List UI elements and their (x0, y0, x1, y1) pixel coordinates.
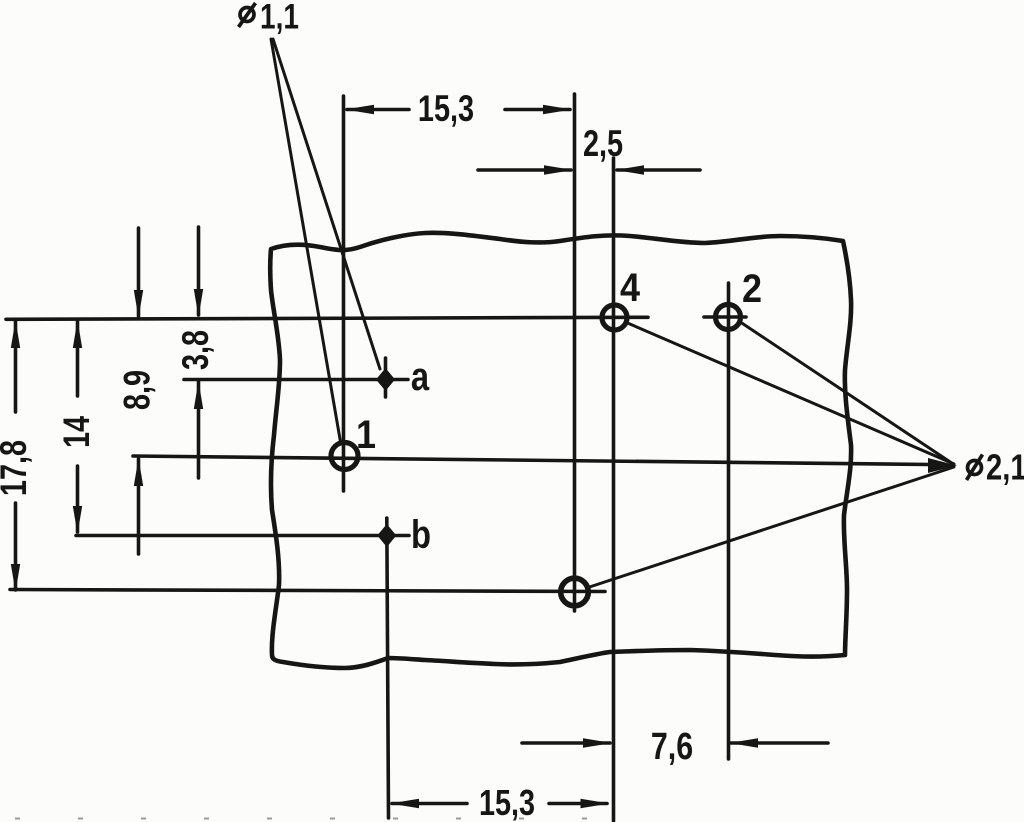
label 4 (620, 266, 640, 310)
arrowhead 2,5 pointing right (544, 165, 573, 174)
wire vertical extension line V3 through hole 4 (612, 158, 616, 821)
dim text 7,6 (651, 726, 693, 768)
dim line 8,9 lower arrow tail (137, 459, 141, 554)
label 2 (742, 267, 762, 311)
arrowhead ø2,1 pointing right (928, 458, 957, 473)
hole 1 (331, 443, 358, 470)
dim line 8,9 upper arrow tail (137, 228, 141, 316)
svg-text:b: b (411, 512, 431, 557)
dim line 14 lower segment (76, 466, 80, 532)
label ø1,1 digits (260, 0, 299, 36)
dim text 15,3 top (418, 89, 474, 130)
svg-text:14: 14 (57, 415, 98, 448)
scan noise dashed line at bottom (15, 818, 595, 820)
hole 4 (602, 305, 627, 330)
svg-text:a: a (411, 354, 430, 399)
label a (411, 354, 430, 399)
svg-text:1,1: 1,1 (260, 0, 299, 36)
dim line 15,3 top left segment (347, 108, 409, 112)
dim line 15,3 bottom right segment (549, 802, 607, 806)
svg-text:2,1: 2,1 (986, 447, 1024, 488)
arrowhead 3,8 top pointing down (194, 289, 203, 317)
wire top datum line through holes 4 and 2 (6, 317, 648, 319)
svg-text:3,8: 3,8 (176, 330, 217, 370)
arrowhead 17,8 down (11, 564, 20, 592)
svg-text:7,6: 7,6 (651, 726, 693, 768)
dim line 3,8 lower arrow tail (197, 382, 201, 478)
dim text 8,9 rotated (117, 370, 158, 410)
label ø1,1 diameter symbol (239, 3, 256, 27)
dim line 15,3 top right segment (505, 108, 570, 112)
leader from hole 3 to ø2,1 (590, 467, 955, 587)
arrowhead 17,8 up (11, 320, 20, 348)
arrowhead 8,9 top pointing down (134, 290, 143, 318)
arrowhead 15,3-bottom pointing right (581, 799, 610, 808)
dim text 2,5 (583, 124, 623, 165)
leader from label ø1,1 to point a (273, 39, 380, 369)
arrowhead 14 down (73, 506, 82, 534)
point a diamond (376, 368, 395, 391)
dim line 3,8 upper arrow tail (197, 227, 201, 315)
arrowhead 14 up (73, 320, 82, 348)
arrowhead 15,3-top pointing right (543, 105, 572, 114)
dim line 2,5 right tail (617, 168, 700, 172)
wire hole-2 short centerline (704, 315, 746, 319)
hole 2 (716, 305, 741, 330)
plate outline (270, 233, 851, 668)
label b (411, 512, 431, 557)
wire hole-a line (184, 378, 408, 382)
svg-text:4: 4 (620, 266, 640, 310)
dim text 17,8 rotated (0, 440, 35, 496)
arrowhead 15,3-top pointing left (345, 105, 374, 114)
dim line 17,8 upper segment (14, 321, 18, 412)
arrowhead 15,3-bottom pointing left (390, 799, 419, 808)
svg-text:15,3: 15,3 (479, 782, 535, 822)
wire hole-b line (76, 534, 409, 538)
leader from hole 2 to ø2,1 (741, 323, 954, 465)
dim line 2,5 left tail (478, 168, 571, 172)
wire short vertical through point a (384, 358, 388, 397)
svg-text:1: 1 (356, 413, 376, 457)
dim text 15,3 bottom (479, 782, 535, 822)
dim line 7,6 right tail (731, 741, 828, 745)
wire vertical line through point b (387, 518, 389, 818)
dim text 3,8 rotated (176, 330, 217, 370)
dim line 15,3 bottom left segment (392, 802, 467, 806)
wire hole-1 line to diameter callout (133, 456, 930, 465)
svg-text:15,3: 15,3 (418, 89, 474, 130)
wire vertical extension line V2 through hole 3 (573, 94, 577, 611)
label ø2,1 diameter symbol (967, 455, 983, 481)
arrowhead 2,5 pointing left (615, 165, 644, 174)
svg-text:2,5: 2,5 (583, 124, 623, 165)
dim text 14 rotated (57, 415, 98, 448)
wire vertical extension line V4 through hole 2 (727, 283, 731, 759)
svg-text:2: 2 (742, 267, 762, 311)
dim line 14 upper segment (76, 321, 80, 396)
svg-text:17,8: 17,8 (0, 440, 35, 496)
arrowhead 7,6 pointing right (583, 738, 612, 747)
dim line 17,8 lower segment (14, 503, 18, 590)
wire vertical extension line V1 through hole 1 (342, 96, 346, 491)
wire bottom datum line through hole 3 (10, 590, 605, 592)
label 1 (356, 413, 376, 457)
leader from hole 4 to ø2,1 (628, 323, 955, 464)
leader from label ø1,1 to hole 1 (271, 39, 341, 442)
arrowhead 7,6 pointing left (730, 738, 759, 747)
hole 3 (561, 578, 589, 606)
label ø2,1 digits (986, 447, 1024, 488)
arrowhead 3,8 bottom pointing up (194, 381, 203, 409)
point b diamond (377, 524, 396, 547)
dim line 7,6 left tail (522, 741, 610, 745)
arrowhead 8,9 bottom pointing up (134, 458, 143, 486)
svg-text:8,9: 8,9 (117, 370, 158, 410)
